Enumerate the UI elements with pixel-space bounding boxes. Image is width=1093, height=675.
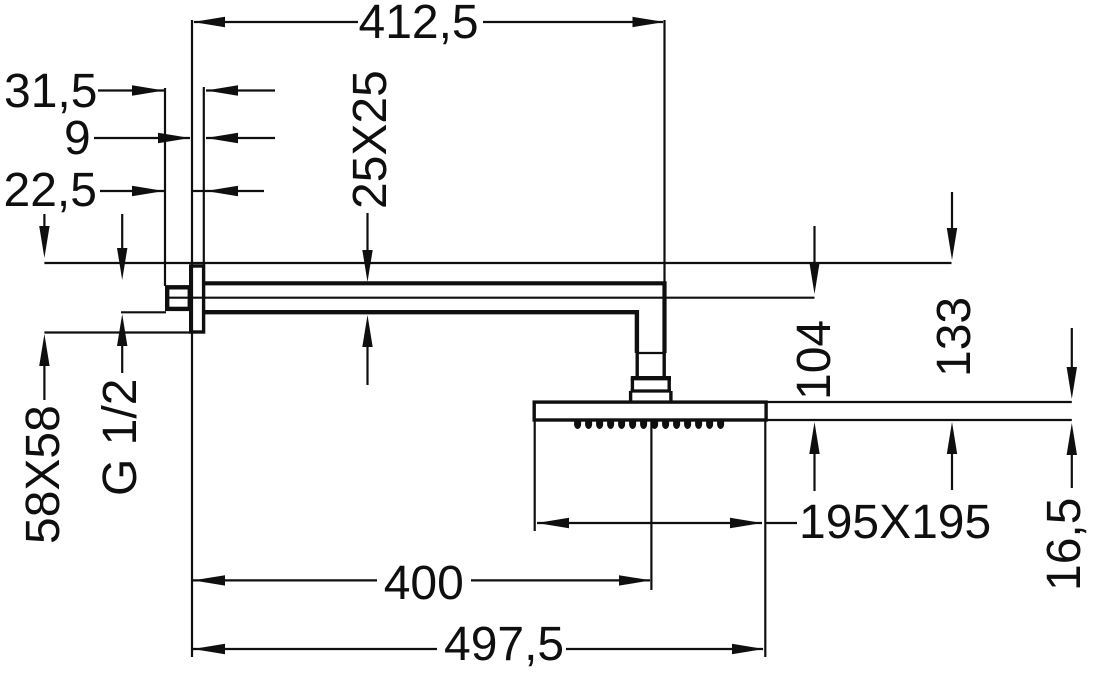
dimension 31,5 [4,65,275,118]
head bottom reference line y=420 [767,419,1072,421]
dimension 25X25 [344,70,397,385]
svg-text:104: 104 [788,320,841,400]
vertical drop leg [637,353,664,378]
dimension 22,5 [4,164,265,217]
dimension 400 [193,557,651,610]
svg-text:G 1/2: G 1/2 [94,379,147,496]
head top reference line y=402 [767,401,1072,403]
svg-text:22,5: 22,5 [4,164,97,217]
dimension 497,5 [193,618,764,671]
bracket bottom reference line y=312 [121,311,166,313]
svg-text:25X25: 25X25 [344,70,397,209]
dimension 104 [788,226,841,491]
dimension 412,5 top [193,0,665,49]
horizontal reference line y=263 [44,262,951,264]
head right extension line x=765.3 [764,421,766,657]
arm elbow joint line [637,352,665,354]
dimension 9 [64,112,275,165]
head center extension line x=651.4 [650,421,652,590]
dimension 195X195 [537,496,991,549]
svg-text:400: 400 [384,557,464,610]
G1/2 mounting bracket behind wall [167,287,190,309]
dimension 58X58 [17,333,191,545]
svg-text:9: 9 [64,112,91,165]
leader arrow x=44 down to reference line y=263 [39,214,49,258]
svg-text:133: 133 [928,297,981,377]
svg-text:16,5: 16,5 [1038,498,1091,591]
svg-text:31,5: 31,5 [4,65,97,118]
label G 1/2 with leader arrows [94,214,147,496]
svg-text:497,5: 497,5 [444,618,564,671]
shower arm tube 25x25 top outline [204,283,665,353]
escutcheon wall plate 58x58 [191,266,204,332]
shower arm tube bottom outline [204,312,637,353]
svg-text:58X58: 58X58 [17,405,70,544]
spray nozzles [574,421,724,430]
wall extension line x=192 [191,20,193,657]
dimension 16,5 [1038,328,1091,591]
arm centerline reference y=297.7 [169,297,815,299]
dimension 133 [928,192,981,490]
shower head plate 195x195 [534,402,766,420]
svg-text:412,5: 412,5 [359,0,479,49]
svg-text:195X195: 195X195 [799,496,991,549]
escutcheon face extension line x=203.8 [203,87,205,265]
arm outer edge extension line x=663.5 [663,20,665,283]
bracket left extension line x=165 [164,88,166,286]
connector nut [631,378,671,400]
head left extension line x=534.7 [534,421,536,531]
